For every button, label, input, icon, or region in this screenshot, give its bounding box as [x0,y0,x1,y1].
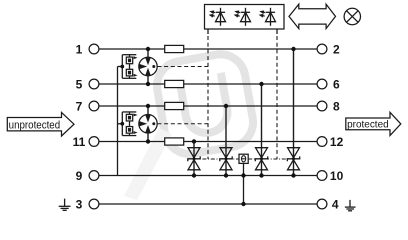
svg-text:2: 2 [333,42,340,56]
svg-text:1: 1 [76,42,83,56]
svg-text:12: 12 [330,135,344,149]
svg-text:6: 6 [333,77,340,91]
svg-text:10: 10 [330,169,344,183]
svg-text:3: 3 [76,197,83,211]
svg-text:11: 11 [73,135,86,149]
svg-text:8: 8 [333,99,340,113]
svg-text:9: 9 [76,169,83,183]
svg-text:unprotected: unprotected [9,119,61,131]
svg-text:7: 7 [76,99,83,113]
svg-text:protected: protected [347,120,389,131]
svg-text:4: 4 [332,197,339,211]
svg-text:5: 5 [76,77,83,91]
